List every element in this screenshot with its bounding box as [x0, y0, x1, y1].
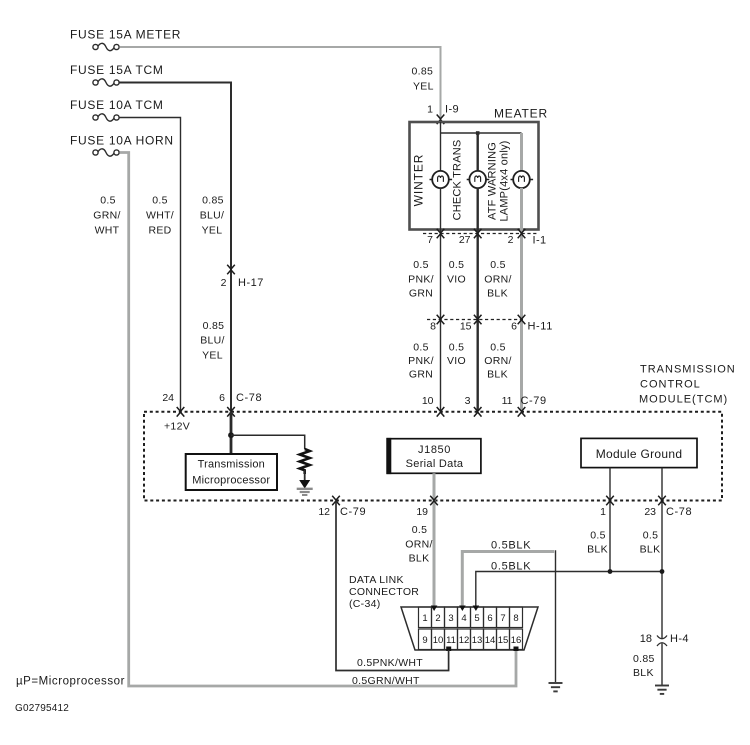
svg-text:FUSE 15A TCM: FUSE 15A TCM [70, 63, 164, 77]
connector marker pin 12 on TCM bottom border [332, 496, 340, 506]
svg-text:FUSE 10A HORN: FUSE 10A HORN [70, 134, 174, 148]
svg-text:7: 7 [427, 234, 433, 246]
wire ORN/BLK from ATF lamp down to TCM pin 11 (gray) [520, 188, 523, 411]
connector marker pin 11 on TCM border [518, 407, 526, 417]
svg-text:BLK: BLK [633, 667, 654, 679]
value label 0.5 VIO (second) [447, 342, 466, 368]
wire resistor to internal ground [304, 470, 306, 481]
svg-text:WHT: WHT [95, 225, 120, 237]
svg-text:2: 2 [508, 234, 514, 246]
svg-text:Transmission: Transmission [198, 459, 265, 471]
DLC connector C-34 trapezoid body [401, 607, 538, 650]
junction on +12V feed [228, 432, 234, 438]
svg-text:2: 2 [221, 277, 227, 289]
svg-text:FUSE 15A METER: FUSE 15A METER [70, 28, 181, 42]
DLC pin numbers row 1 [422, 613, 518, 624]
svg-text:MEATER: MEATER [494, 107, 548, 121]
svg-text:0.85: 0.85 [203, 320, 225, 332]
svg-text:0.5BLK: 0.5BLK [491, 561, 531, 573]
svg-text:8: 8 [430, 321, 436, 333]
svg-text:VIO: VIO [447, 274, 466, 286]
svg-text:BLK: BLK [640, 544, 661, 556]
wire BLU/YEL from FUSE 15A TCM down to TCM pin 6 [120, 83, 232, 411]
lamp ATF WARNING [511, 171, 534, 188]
connector marker pin 6 on TCM border [227, 407, 235, 417]
junction pin23 wire with BLK bus [660, 569, 665, 574]
connector I-1 marker pin 27 [474, 229, 482, 239]
svg-text:Serial Data: Serial Data [406, 458, 464, 470]
wire BLK vertical down to ground (left ground) [555, 550, 557, 682]
svg-text:6: 6 [487, 613, 492, 624]
svg-text:3: 3 [465, 395, 471, 407]
svg-text:3: 3 [448, 613, 453, 624]
DLC pin cells row 2 (pins 9-16) [419, 629, 523, 650]
fuse FUSE 10A HORN symbol [93, 149, 119, 156]
svg-text:H-11: H-11 [528, 321, 553, 333]
connector H-11 marker pin 15 [474, 315, 482, 325]
fuse FUSE 15A METER symbol [93, 43, 119, 50]
svg-text:CONTROL: CONTROL [640, 379, 701, 391]
connector marker pin 24 on TCM border [177, 407, 185, 417]
value label 0.5 ORN/BLK [484, 259, 511, 300]
svg-text:27: 27 [459, 234, 471, 246]
svg-text:G02795412: G02795412 [15, 703, 69, 714]
svg-text:BLU/: BLU/ [200, 335, 225, 347]
value label 0.5 PNK/GRN (second) [408, 342, 434, 381]
terminal arrow into DLC pin 5 [473, 606, 480, 612]
wire inside meter: bus to lamps [441, 132, 522, 134]
svg-text:YEL: YEL [202, 350, 223, 362]
wire 0.5BLK (gray) from DLC pin 4 to right then down to ground [462, 552, 554, 607]
ground symbol (left, from DLC pin 4 BLK wire) [549, 683, 563, 691]
connector I-1 dashed line [423, 233, 538, 235]
svg-text:BLU/: BLU/ [200, 210, 225, 222]
fuse FUSE 10A TCM symbol [93, 114, 119, 121]
connector H-17 marker on BLU/YEL wire [227, 265, 235, 275]
svg-text:GRN: GRN [409, 369, 433, 381]
svg-text:8: 8 [513, 613, 518, 624]
svg-text:24: 24 [162, 392, 174, 404]
value label 0.85 BLK [633, 653, 655, 679]
svg-text:LAMP(4x4 only): LAMP(4x4 only) [499, 140, 511, 221]
connector marker pin 1 on TCM bottom border [606, 496, 614, 506]
svg-text:0.5: 0.5 [590, 530, 606, 542]
value label 0.5 WHT/RED [146, 195, 174, 237]
svg-text:15: 15 [498, 635, 509, 646]
svg-text:18: 18 [640, 633, 652, 645]
connector marker pin 3 on TCM border [474, 407, 482, 417]
svg-text:1: 1 [600, 506, 606, 518]
resistor (pull-up inside TCM) [300, 449, 310, 474]
svg-text:10: 10 [422, 395, 434, 407]
label DATA LINK CONNECTOR (C-34) [349, 574, 419, 610]
wire module ground pin 23 down to ground [661, 468, 663, 685]
wire VIO from CHECK TRANS lamp down to TCM pin 3 [477, 188, 479, 411]
svg-text:WINTER: WINTER [412, 154, 426, 207]
svg-text:0.5: 0.5 [643, 530, 659, 542]
svg-text:0.5: 0.5 [413, 342, 429, 354]
wire module ground pin 1 [609, 468, 611, 572]
wire inside meter: pin1 feed down to WINTER lamp [440, 122, 442, 171]
value label 0.5 ORN/BLK under pin 19 [405, 524, 432, 565]
value label 0.5 GRN/WHT [93, 195, 120, 237]
svg-text:2: 2 [435, 613, 440, 624]
svg-text:RED: RED [148, 225, 171, 237]
svg-text:0.5PNK/WHT: 0.5PNK/WHT [357, 657, 423, 669]
svg-text:1: 1 [427, 104, 433, 116]
svg-text:13: 13 [472, 635, 483, 646]
wire ORN/BLK from J1850 box to DLC pin 2 (gray) [433, 473, 436, 606]
ground symbol (right, from TCM pin 23) [655, 686, 669, 694]
svg-text:MODULE(TCM): MODULE(TCM) [639, 394, 728, 406]
svg-text:Module Ground: Module Ground [596, 447, 683, 461]
svg-text:12: 12 [318, 506, 330, 518]
svg-text:0.85: 0.85 [412, 66, 434, 78]
svg-text:C-78: C-78 [236, 392, 262, 404]
wire 0.5PNK/WHT from TCM pin 12 to DLC pin 11 [336, 501, 449, 671]
svg-text:CHECK TRANS: CHECK TRANS [452, 140, 464, 221]
svg-text:ORN/: ORN/ [484, 274, 511, 286]
lamp CHECK TRANS [467, 171, 490, 188]
svg-text:19: 19 [416, 506, 428, 518]
svg-text:GRN/: GRN/ [93, 210, 120, 222]
connector I-1 marker pin 2 [518, 229, 526, 239]
svg-text:+12V: +12V [164, 421, 190, 433]
value label 0.85 BLU/YEL [200, 195, 225, 237]
svg-text:WHT/: WHT/ [146, 210, 174, 222]
lamp WINTER [430, 171, 453, 188]
svg-text:0.5: 0.5 [152, 195, 168, 207]
svg-text:BLK: BLK [587, 544, 608, 556]
connector H-11 marker pin 8 [437, 315, 445, 325]
svg-text:Microprocessor: Microprocessor [192, 475, 270, 487]
fuse FUSE 15A TCM symbol [93, 79, 119, 86]
terminal square at DLC pin 16 bottom [514, 647, 519, 652]
meter unit MEATER box [410, 122, 539, 230]
svg-text:12: 12 [459, 635, 470, 646]
svg-text:9: 9 [422, 635, 427, 646]
value label 0.5 BLK under pin 23 [640, 530, 661, 556]
junction at bus and CHECK TRANS drop [476, 131, 480, 135]
svg-text:C-79: C-79 [340, 506, 366, 518]
connector H-11 marker pin 6 [518, 315, 526, 325]
TCM title TRANSMISSION CONTROL MODULE(TCM) [639, 364, 736, 406]
svg-text:FUSE 10A TCM: FUSE 10A TCM [70, 98, 164, 112]
svg-text:YEL: YEL [202, 225, 223, 237]
wire PNK/GRN from WINTER lamp down to TCM pin 10 [440, 188, 442, 411]
svg-text:ORN/: ORN/ [484, 355, 511, 367]
svg-text:PNK/: PNK/ [408, 274, 434, 286]
DLC pin cells row 1 (pins 1-8) [419, 607, 523, 628]
wire +12V feed inside TCM from pin 6 [230, 412, 233, 454]
svg-text:CONNECTOR: CONNECTOR [349, 586, 419, 598]
svg-text:0.5: 0.5 [490, 342, 506, 354]
svg-text:J1850: J1850 [418, 444, 451, 456]
svg-text:GRN: GRN [409, 288, 433, 300]
block Module Ground [581, 438, 697, 467]
block Transmission Microprocessor [186, 454, 277, 490]
svg-text:0.85: 0.85 [633, 653, 655, 665]
value label 0.5 BLK under pin 1 [587, 530, 608, 556]
wire drop to CHECK TRANS lamp [477, 133, 479, 170]
svg-text:TRANSMISSION: TRANSMISSION [640, 364, 736, 376]
connector H-11 dashed line [427, 319, 524, 321]
svg-text:23: 23 [644, 506, 656, 518]
DLC pin numbers row 2 [422, 635, 521, 646]
svg-text:DATA LINK: DATA LINK [349, 574, 404, 586]
svg-text:0.5: 0.5 [449, 342, 465, 354]
svg-text:5: 5 [474, 613, 479, 624]
svg-text:0.5: 0.5 [100, 195, 116, 207]
svg-text:4: 4 [461, 613, 466, 624]
svg-text:0.5: 0.5 [490, 259, 506, 271]
svg-text:14: 14 [485, 635, 496, 646]
svg-text:0.85: 0.85 [202, 195, 224, 207]
wire YEL from FUSE 15A METER to meter pin 1 [120, 47, 441, 121]
value label 0.85 YEL at top of meter [412, 66, 434, 93]
connector marker at meter pin 1 [437, 115, 445, 125]
svg-text:BLK: BLK [409, 553, 430, 565]
connector marker pin 19 on TCM bottom border [430, 496, 438, 506]
value label 0.85 BLU/YEL (second) [200, 320, 225, 362]
svg-text:PNK/: PNK/ [408, 355, 434, 367]
svg-text:BLK: BLK [487, 288, 508, 300]
terminal arrow into DLC pin 2 [431, 606, 438, 612]
svg-text:11: 11 [502, 395, 513, 407]
svg-text:C-79: C-79 [521, 395, 547, 407]
connector H-4 inline break on pin 23 ground wire [657, 636, 667, 647]
svg-text:µP=Microprocessor: µP=Microprocessor [16, 676, 125, 688]
terminal square at DLC pin 11 bottom [446, 647, 451, 652]
svg-text:YEL: YEL [413, 81, 434, 93]
wire drop to ATF lamp (gray) [520, 133, 523, 171]
svg-text:6: 6 [511, 321, 517, 333]
svg-text:0.5: 0.5 [413, 259, 429, 271]
svg-text:1: 1 [422, 613, 427, 624]
TCM module dashed box [144, 412, 722, 501]
svg-text:H-4: H-4 [670, 633, 689, 645]
svg-text:15: 15 [460, 321, 472, 333]
svg-text:6: 6 [219, 392, 225, 404]
connector marker pin 10 on TCM border [437, 407, 445, 417]
terminal arrow into DLC pin 4 [459, 606, 466, 612]
svg-text:11: 11 [446, 635, 456, 646]
svg-text:ORN/: ORN/ [405, 539, 432, 551]
internal chassis ground below resistor [297, 480, 313, 495]
wire 0.5BLK from DLC pin 5 joining module ground wires [476, 572, 662, 607]
svg-text:H-17: H-17 [238, 277, 264, 289]
connector I-1 marker pin 7 [437, 229, 445, 239]
svg-text:(C-34): (C-34) [349, 598, 381, 610]
svg-text:0.5: 0.5 [449, 259, 465, 271]
svg-text:BLK: BLK [487, 369, 508, 381]
svg-text:I-9: I-9 [445, 104, 459, 116]
value label 0.5 ORN/BLK (second) [484, 342, 511, 381]
block J1850 Serial Data [387, 439, 481, 474]
svg-text:0.5: 0.5 [412, 524, 428, 536]
svg-text:16: 16 [511, 635, 522, 646]
connector marker pin 23 on TCM bottom border [658, 496, 666, 506]
wire GRN/WHT from FUSE 10A HORN down left side to DLC pin 16 [120, 153, 517, 687]
junction pin1 wire with BLK bus [608, 569, 613, 574]
svg-text:I-1: I-1 [533, 235, 547, 247]
wire WHT/RED from FUSE 10A TCM down to TCM pin 24 [120, 118, 181, 411]
svg-text:10: 10 [433, 635, 444, 646]
svg-text:ATF WARNING: ATF WARNING [487, 142, 499, 220]
wire branch to pull-up resistor [231, 435, 305, 449]
value label 0.5 PNK/GRN [408, 259, 434, 300]
svg-text:VIO: VIO [447, 355, 466, 367]
svg-text:0.5BLK: 0.5BLK [491, 540, 531, 552]
svg-text:C-78: C-78 [666, 506, 692, 518]
value label 0.5 VIO [447, 259, 466, 286]
svg-text:7: 7 [500, 613, 505, 624]
svg-text:0.5GRN/WHT: 0.5GRN/WHT [352, 675, 420, 687]
